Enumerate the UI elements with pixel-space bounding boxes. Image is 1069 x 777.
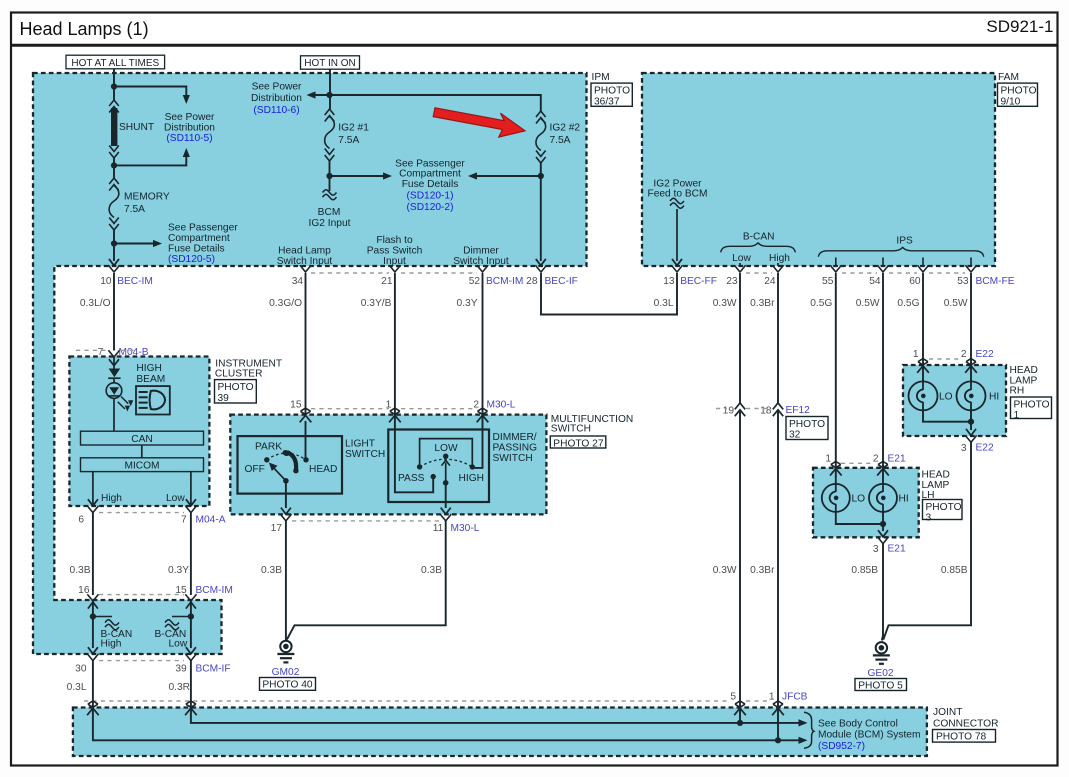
svg-text:LAMP: LAMP <box>1010 375 1038 386</box>
svg-text:1: 1 <box>769 692 775 703</box>
node joint pin1 <box>775 737 781 743</box>
svg-text:BCM-IM: BCM-IM <box>196 585 233 596</box>
light switch dashed arc <box>267 453 306 460</box>
pin 7 M04-B <box>98 347 149 358</box>
svg-text:28: 28 <box>526 276 538 287</box>
0.3R label <box>168 682 190 693</box>
INSTRUMENT CLUSTER label <box>215 359 282 380</box>
pin 5 JFCB <box>730 692 745 716</box>
svg-text:PHOTO 40: PHOTO 40 <box>262 680 313 691</box>
svg-text:7.5A: 7.5A <box>550 135 571 146</box>
connector dashes M30-L bottom <box>292 520 439 522</box>
pin 55 <box>810 265 841 309</box>
HI label RH <box>989 392 999 403</box>
inline connector 18 EF12 <box>760 403 783 417</box>
wire IG2 feed to pin 13 <box>676 209 678 261</box>
svg-text:0.3L: 0.3L <box>654 298 674 309</box>
HEAD label <box>309 464 337 475</box>
multifunction photo box <box>550 436 606 449</box>
wire pin 53 to E22-2 <box>970 273 972 381</box>
GE02 label <box>867 668 893 679</box>
svg-text:0.3G/O: 0.3G/O <box>269 298 302 309</box>
wire B-CAN low stub <box>739 263 741 266</box>
fuse IG2 #1 7.5A <box>325 109 335 161</box>
svg-text:BEAM: BEAM <box>136 374 165 385</box>
svg-text:LO: LO <box>852 494 866 505</box>
MULTIFUNCTION SWITCH label <box>551 414 633 434</box>
wire pin 11 to GM02 (0.3B) <box>287 521 446 640</box>
pin 17 M30-L <box>271 514 292 534</box>
svg-text:7: 7 <box>181 515 187 526</box>
svg-text:7: 7 <box>98 347 104 358</box>
wire pin 21 to pin 1 <box>394 273 396 414</box>
svg-text:SWITCH: SWITCH <box>493 453 533 464</box>
node RH common <box>968 419 974 425</box>
svg-text:36/37: 36/37 <box>594 96 620 107</box>
wire B-CAN high segment <box>92 601 94 648</box>
svg-text:Head Lamp: Head Lamp <box>278 246 331 257</box>
svg-text:EF12: EF12 <box>786 405 811 416</box>
svg-text:39: 39 <box>218 393 230 404</box>
svg-text:See Passenger: See Passenger <box>395 158 465 169</box>
wire pin 30 down <box>92 661 94 708</box>
pin 2 E21 <box>873 454 906 476</box>
wire hot-in-on to IG2#2 <box>330 95 541 111</box>
ground GM02 <box>277 641 294 663</box>
svg-text:Fuse Details: Fuse Details <box>168 243 225 254</box>
B-CAN Low label <box>155 629 188 650</box>
title separator line <box>11 44 1058 47</box>
svg-text:HEAD: HEAD <box>922 469 950 480</box>
svg-text:11: 11 <box>433 523 444 534</box>
svg-text:1: 1 <box>1014 410 1020 421</box>
CAN box <box>81 431 204 445</box>
high beam lamp circle <box>106 383 122 399</box>
B-CAN Low label <box>732 253 751 264</box>
BCM IG2 input twisted symbol <box>323 190 337 200</box>
svg-text:PHOTO 27: PHOTO 27 <box>553 438 604 449</box>
JOINT CONNECTOR label <box>933 707 998 730</box>
connector dashes BCM-IM <box>99 594 184 596</box>
svg-text:Switch Input: Switch Input <box>453 256 509 267</box>
wire pin 19 lower (0.3W) <box>739 410 741 708</box>
svg-text:PASSING: PASSING <box>493 443 538 454</box>
pin 1 E22 <box>913 349 929 373</box>
joint brace <box>804 712 814 748</box>
svg-text:2: 2 <box>473 399 479 410</box>
pin 60 <box>897 265 928 309</box>
wire pin 55 to E21-1 <box>835 273 837 484</box>
svg-text:Switch Input: Switch Input <box>277 256 333 267</box>
connector dashes EF12 <box>716 408 770 410</box>
svg-text:CLUSTER: CLUSTER <box>215 369 263 380</box>
svg-text:BEC-IM: BEC-IM <box>117 276 153 287</box>
see passenger compartment fuse details SD120-5 text <box>168 223 238 265</box>
0.3L label <box>67 682 87 693</box>
wire MICOM High out <box>88 472 98 506</box>
0.3Y label <box>168 565 189 576</box>
node below shunt <box>111 162 117 168</box>
svg-text:M04-B: M04-B <box>119 347 149 358</box>
wire IG2#1 to BCM IG2 input <box>329 161 331 191</box>
svg-text:E21: E21 <box>888 454 906 465</box>
svg-text:HEAD: HEAD <box>1010 365 1038 376</box>
svg-text:(SD120-1): (SD120-1) <box>407 191 454 202</box>
wire dimmer common out <box>441 483 451 514</box>
bulb RH HI <box>957 381 986 410</box>
svg-text:Module (BCM) System: Module (BCM) System <box>818 730 920 741</box>
svg-text:SWITCH: SWITCH <box>345 449 385 460</box>
svg-text:High: High <box>101 493 122 504</box>
0.3W label lower <box>713 565 737 576</box>
svg-text:SHUNT: SHUNT <box>119 122 154 133</box>
0.85B label right <box>941 565 968 576</box>
svg-text:18: 18 <box>760 406 772 417</box>
HEAD LAMP RH box <box>903 365 1006 436</box>
wire RH bulbs common <box>923 410 971 421</box>
svg-text:IPM: IPM <box>592 72 610 83</box>
svg-text:LO: LO <box>939 392 953 403</box>
pin 15 M30-L <box>290 399 311 422</box>
svg-text:7.5A: 7.5A <box>338 135 359 146</box>
bulb RH LO <box>909 381 938 410</box>
see BCM system text <box>818 718 920 752</box>
FAM photo box <box>998 83 1038 107</box>
svg-text:See Passenger: See Passenger <box>168 223 238 234</box>
pin 54 <box>856 265 889 309</box>
pin 39 BCM-IF <box>175 654 230 675</box>
svg-text:Distribution: Distribution <box>251 93 302 104</box>
connector dashes E21 top <box>841 462 874 464</box>
EF12 label <box>786 405 811 416</box>
wire pin 52 to pin 2 <box>482 273 484 414</box>
svg-text:52: 52 <box>469 276 481 287</box>
svg-text:IPS: IPS <box>896 236 913 247</box>
svg-text:PASS: PASS <box>398 473 425 484</box>
svg-text:BEC-FF: BEC-FF <box>680 276 717 287</box>
0.85B label left <box>851 565 878 576</box>
connector dashes M30-L top <box>311 408 477 410</box>
svg-text:Compartment: Compartment <box>168 233 230 244</box>
arrow into pin 10 <box>109 259 119 266</box>
svg-text:LAMP: LAMP <box>922 480 950 491</box>
wire hot-at-all-times feed <box>113 69 115 100</box>
svg-text:1: 1 <box>913 349 919 360</box>
svg-text:PHOTO: PHOTO <box>789 419 825 430</box>
svg-text:Compartment: Compartment <box>399 169 461 180</box>
arrow into B-CAN low <box>186 602 196 609</box>
svg-text:See Body Control: See Body Control <box>818 718 898 729</box>
LOW label <box>434 443 458 454</box>
pin 1 E21 <box>825 454 841 476</box>
node B-CAN high <box>90 613 96 619</box>
svg-text:Input: Input <box>383 256 406 267</box>
bulb LH HI <box>869 484 897 512</box>
svg-text:7.5A: 7.5A <box>124 204 145 215</box>
dimmer dashed arc <box>420 459 473 467</box>
EF12 photo box <box>786 417 828 441</box>
IPM photo box <box>591 83 632 107</box>
wire B-CAN high stub <box>777 263 779 266</box>
svg-text:15: 15 <box>290 399 302 410</box>
wire LH common out <box>878 512 888 537</box>
svg-text:HEAD: HEAD <box>309 464 337 475</box>
svg-text:(SD120-5): (SD120-5) <box>168 254 215 265</box>
svg-text:0.5W: 0.5W <box>944 298 968 309</box>
svg-text:BCM-IM: BCM-IM <box>486 276 523 287</box>
svg-text:PHOTO: PHOTO <box>594 85 630 96</box>
title Head Lamps (1) <box>20 19 149 39</box>
pin 3 E21 <box>873 537 906 555</box>
node below IG2#1 <box>326 173 332 179</box>
svg-text:HOT AT ALL TIMES: HOT AT ALL TIMES <box>71 58 159 69</box>
pin 13 BEC-FF <box>654 265 717 309</box>
svg-text:21: 21 <box>381 276 393 287</box>
wire branch to SD110-6 (left arrow) <box>307 91 330 98</box>
svg-text:3: 3 <box>926 513 932 524</box>
RH photo box <box>1011 397 1052 421</box>
svg-text:PARK: PARK <box>255 441 282 452</box>
High label <box>101 493 122 504</box>
wire pin 10 to pin 7 M04-B <box>113 273 115 351</box>
wire pin2 to HIGH contact <box>474 415 483 468</box>
wire HEAD contact to pin 15 <box>305 421 307 460</box>
HIGH label <box>459 473 484 484</box>
svg-text:Flash to: Flash to <box>376 235 413 246</box>
svg-text:0.3W: 0.3W <box>713 565 737 576</box>
svg-text:E22: E22 <box>976 443 994 454</box>
wire pin 17 to GM02 (0.3B) <box>285 521 287 641</box>
HEAD LAMP RH label <box>1010 365 1038 397</box>
svg-text:See Power: See Power <box>252 81 302 92</box>
svg-text:24: 24 <box>764 276 776 287</box>
light switch contacts <box>264 450 309 462</box>
see power distribution SD110-6 text <box>251 81 302 116</box>
cluster photo box <box>215 380 257 404</box>
svg-text:0.85B: 0.85B <box>941 565 968 576</box>
sheet number SD921-1 <box>986 17 1053 36</box>
svg-text:M30-L: M30-L <box>451 523 480 534</box>
connector dashes M04-B <box>76 349 137 351</box>
svg-text:PHOTO 78: PHOTO 78 <box>936 732 987 743</box>
pin 52 BCM-IM <box>457 265 524 309</box>
svg-text:SD921-1: SD921-1 <box>986 17 1053 36</box>
IPM module box (with left strip and B-CAN lower box) <box>33 73 587 654</box>
svg-text:60: 60 <box>909 276 921 287</box>
dimmer wiper arrow <box>442 460 450 483</box>
wire pin 24 upper (0.3Br) <box>777 273 779 403</box>
pin 1 JFCB <box>769 692 808 716</box>
PASS label <box>398 473 425 484</box>
DIMMER/PASSING SWITCH box <box>388 430 489 503</box>
wire shunt to memory fuse <box>113 158 115 178</box>
IPS label <box>896 236 913 247</box>
pin 23 <box>713 265 746 309</box>
wire IPS stub 54 <box>882 258 884 267</box>
arrow into B-CAN high <box>88 602 98 609</box>
wire pin 28 to pin 13 (0.3L) <box>541 273 677 315</box>
wire hot-in-on feed <box>329 69 331 109</box>
svg-text:IG2 #1: IG2 #1 <box>338 123 369 134</box>
svg-text:HIGH: HIGH <box>459 473 484 484</box>
svg-text:JOINT: JOINT <box>933 707 962 718</box>
wire pin 60 to E22-1 <box>922 273 924 381</box>
wire pin 34 to pin 15 <box>305 273 307 414</box>
MEMORY 7.5A label <box>124 192 170 216</box>
node LH common <box>880 521 886 527</box>
IG2 feed twisted symbol <box>670 198 684 208</box>
see power distribution SD110-5 text <box>164 112 215 144</box>
svg-text:E22: E22 <box>976 349 994 360</box>
svg-text:54: 54 <box>869 276 881 287</box>
OFF label <box>245 464 265 475</box>
see passenger compartment fuse details SD120-1/2 text <box>395 158 465 213</box>
wire pin 6 to 16 (0.3B) <box>92 513 94 595</box>
dimmer pivot <box>443 480 449 486</box>
wire E22-3 to GE02 (0.85B) <box>883 442 971 639</box>
svg-text:PHOTO: PHOTO <box>1014 399 1050 410</box>
Low label <box>166 493 185 504</box>
svg-text:MICOM: MICOM <box>124 460 159 471</box>
connector dashes row1 BCM-IM <box>311 272 477 274</box>
svg-text:DIMMER/: DIMMER/ <box>493 432 537 443</box>
svg-text:BCM-IF: BCM-IF <box>196 664 231 675</box>
svg-text:10: 10 <box>100 276 112 287</box>
pin 2 M30-L <box>473 399 515 422</box>
pin 30 BCM-IF <box>75 654 98 675</box>
svg-text:Pass Switch: Pass Switch <box>367 246 422 257</box>
svg-text:0.3L: 0.3L <box>67 682 87 693</box>
svg-text:2: 2 <box>961 349 967 360</box>
svg-text:CAN: CAN <box>131 434 153 445</box>
svg-text:0.3Br: 0.3Br <box>750 565 775 576</box>
svg-text:0.5W: 0.5W <box>856 298 880 309</box>
svg-text:0.3B: 0.3B <box>70 565 91 576</box>
svg-text:32: 32 <box>789 430 801 441</box>
LO label RH <box>939 392 953 403</box>
node below IG2#2 <box>538 173 544 179</box>
node B-CAN low <box>188 613 194 619</box>
fuse IG2 #2 7.5A <box>536 111 546 163</box>
dimmer contacts <box>417 454 475 480</box>
wire MICOM Low out <box>186 472 196 506</box>
svg-text:BCM-FE: BCM-FE <box>976 276 1015 287</box>
ground GE02 <box>873 642 890 664</box>
JOINT CONNECTOR box <box>73 708 927 757</box>
svg-text:PHOTO: PHOTO <box>1001 85 1037 96</box>
GE02 photo box <box>855 679 907 692</box>
node shunt top junction <box>111 83 117 89</box>
DIMMER PASSING SWITCH label <box>493 432 538 464</box>
svg-text:1: 1 <box>825 454 831 465</box>
high beam diode symbol <box>108 369 120 379</box>
svg-text:JFCB: JFCB <box>782 692 808 703</box>
svg-text:0.5G: 0.5G <box>897 298 919 309</box>
SHUNT label <box>119 122 154 133</box>
wire light switch common out <box>281 481 291 514</box>
connector dashes row1 FAM <box>746 272 965 274</box>
svg-text:3: 3 <box>961 443 967 454</box>
node joint pin5 <box>737 720 743 726</box>
B-CAN brace <box>721 243 796 253</box>
fuse MEMORY 7.5A <box>109 178 119 230</box>
svg-text:34: 34 <box>292 276 304 287</box>
wire IPS stub 60 <box>922 258 924 267</box>
wire IPS stub 55 <box>835 258 837 267</box>
svg-text:0.3W: 0.3W <box>713 298 737 309</box>
svg-text:0.3Y: 0.3Y <box>457 298 478 309</box>
svg-text:0.85B: 0.85B <box>851 565 878 576</box>
svg-text:HIGH: HIGH <box>136 363 161 374</box>
IG2 #1 label <box>338 123 369 146</box>
svg-text:0.3B: 0.3B <box>261 565 282 576</box>
svg-text:0.3L/O: 0.3L/O <box>80 298 111 309</box>
svg-text:Head Lamps (1): Head Lamps (1) <box>20 19 149 39</box>
svg-text:2: 2 <box>873 454 879 465</box>
svg-text:GM02: GM02 <box>272 667 300 678</box>
pin 3 E22 <box>961 436 994 455</box>
joint bus upper wire <box>191 708 808 727</box>
svg-text:23: 23 <box>726 276 738 287</box>
svg-text:CONNECTOR: CONNECTOR <box>933 719 998 730</box>
FAM module box <box>642 73 995 266</box>
svg-text:FAM: FAM <box>998 72 1019 83</box>
wire branch to fuse details SD120-5 <box>114 240 162 247</box>
red annotation arrow IG2 #2 <box>433 108 525 137</box>
BCM IG2 Input label <box>309 207 351 229</box>
svg-text:RH: RH <box>1010 386 1025 397</box>
0.3B label pin11 <box>421 565 442 576</box>
wire branch to fuse details (right arrow) <box>330 172 393 179</box>
svg-text:See Power: See Power <box>165 112 215 123</box>
wire pin 5 drop <box>739 708 741 723</box>
arrow out of B-CAN box 39 <box>186 647 196 654</box>
pin 7 M04-A <box>181 506 226 526</box>
pin 16 BCM-IM <box>78 585 98 601</box>
pin 28 BEC-IF <box>526 265 578 287</box>
pin 34 BCM-IM <box>269 265 311 309</box>
svg-text:IG2 #2: IG2 #2 <box>550 123 581 134</box>
svg-text:M04-A: M04-A <box>196 515 226 526</box>
HOT AT ALL TIMES label <box>66 55 165 69</box>
IPS brace <box>818 247 983 256</box>
wire memory fuse to border <box>113 230 115 261</box>
svg-text:39: 39 <box>175 664 187 675</box>
svg-text:Feed to BCM: Feed to BCM <box>647 189 707 200</box>
svg-text:30: 30 <box>75 664 87 675</box>
svg-text:(SD120-2): (SD120-2) <box>407 202 454 213</box>
wire E21-3 to GE02 (0.85B) <box>882 544 883 641</box>
pin 24 <box>750 265 783 309</box>
HEAD LAMP LH label <box>922 469 950 501</box>
svg-text:BEC-IF: BEC-IF <box>545 276 578 287</box>
wire lamp wire segments <box>113 357 115 431</box>
LIGHT SWITCH box <box>238 436 343 494</box>
svg-text:HOT IN ON: HOT IN ON <box>304 58 355 69</box>
svg-text:6: 6 <box>78 515 84 526</box>
svg-text:53: 53 <box>957 276 969 287</box>
shunt symbol <box>109 100 119 158</box>
svg-text:LIGHT: LIGHT <box>345 439 375 450</box>
B-CAN High twisted pair symbol <box>93 617 119 630</box>
svg-text:High: High <box>769 253 790 264</box>
HOT IN ON label <box>301 56 360 69</box>
svg-text:Distribution: Distribution <box>164 122 215 133</box>
svg-text:B-CAN: B-CAN <box>743 232 775 243</box>
svg-text:High: High <box>101 639 122 650</box>
arrow out of B-CAN box 30 <box>88 647 98 654</box>
svg-text:HI: HI <box>899 494 909 505</box>
